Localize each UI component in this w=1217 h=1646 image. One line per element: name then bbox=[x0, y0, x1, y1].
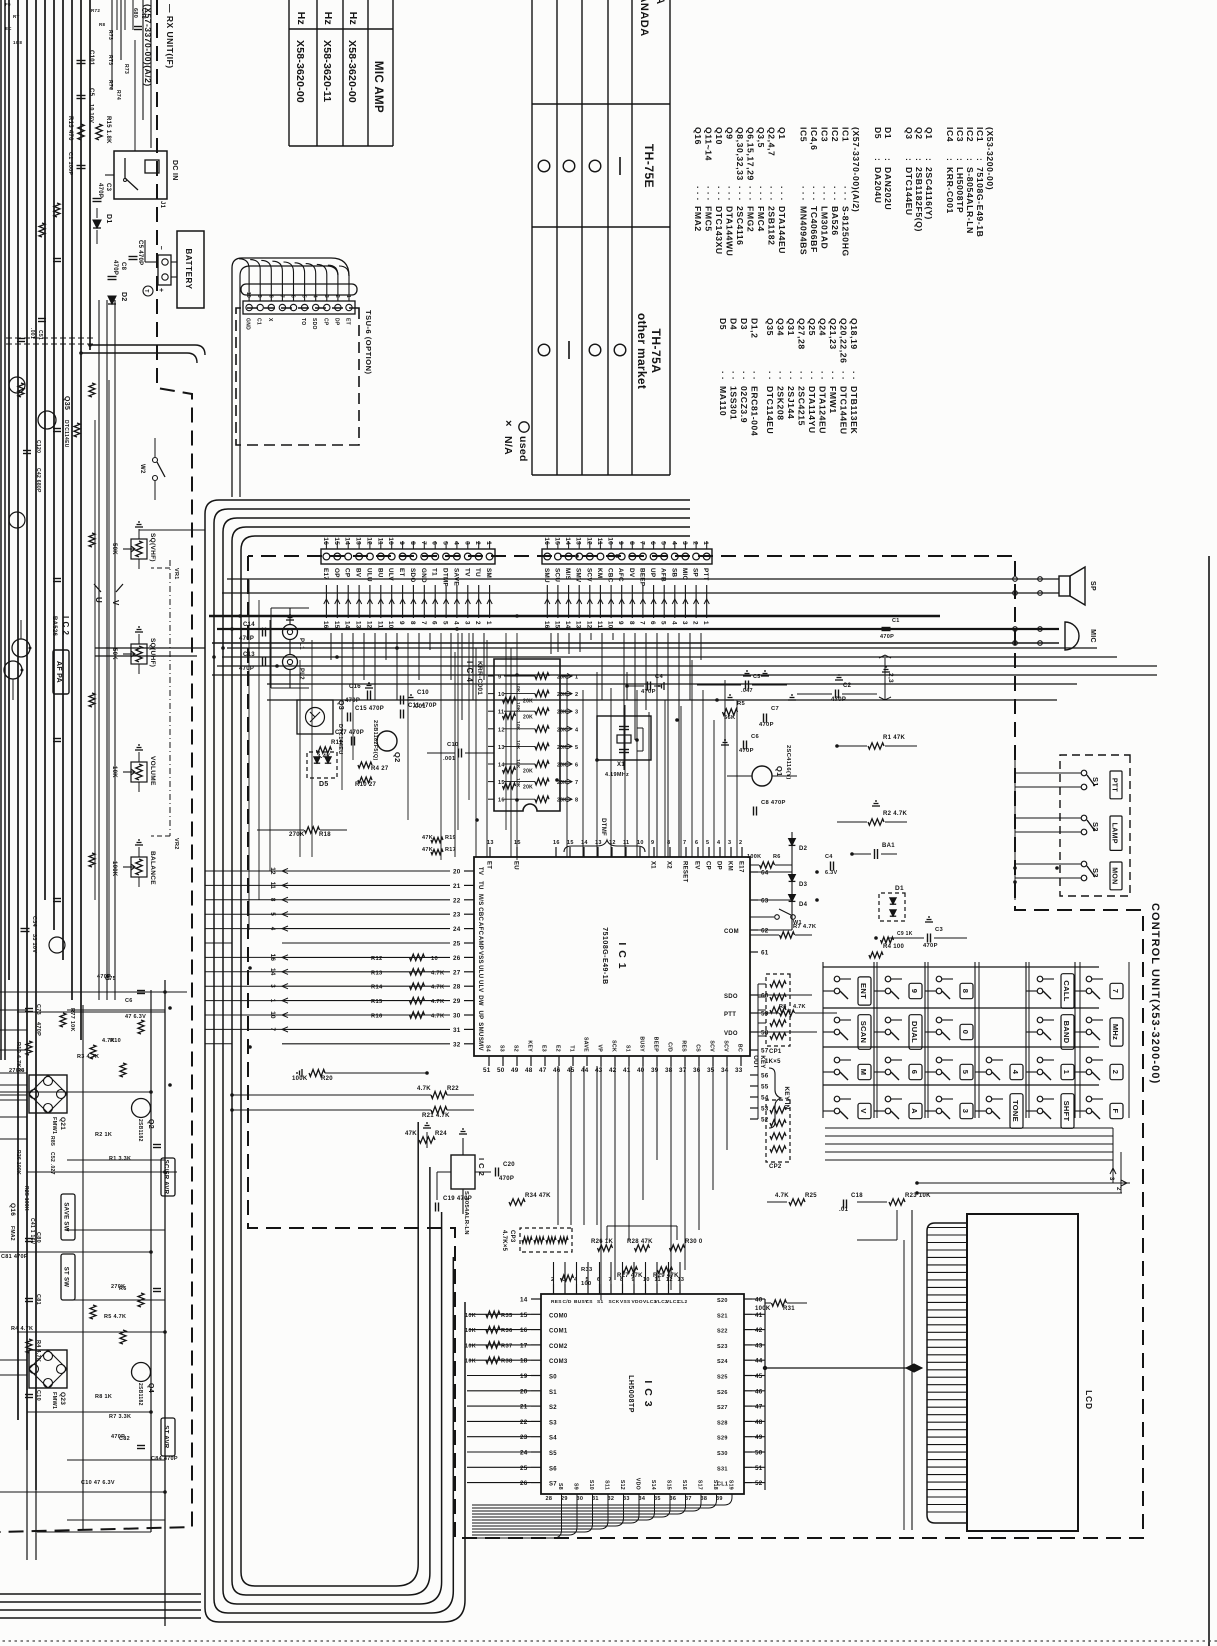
svg-text:KRR-C001: KRR-C001 bbox=[476, 661, 483, 695]
svg-text:Q35: Q35 bbox=[63, 396, 70, 410]
svg-text:15: 15 bbox=[553, 621, 560, 629]
svg-text:10K: 10K bbox=[465, 1328, 476, 1334]
svg-text:TU: TU bbox=[474, 568, 481, 577]
svg-text:6: 6 bbox=[649, 621, 656, 625]
svg-text:14: 14 bbox=[564, 537, 571, 545]
svg-text:E3: E3 bbox=[541, 1045, 547, 1052]
svg-text:VR2: VR2 bbox=[173, 838, 179, 850]
svg-text:· · ·: · · · bbox=[746, 186, 756, 201]
svg-text:5: 5 bbox=[575, 745, 578, 751]
svg-text:S1: S1 bbox=[597, 1299, 603, 1305]
svg-text:MIC AMP: MIC AMP bbox=[372, 61, 384, 113]
svg-text:AMP: AMP bbox=[477, 936, 483, 950]
svg-text:C4: C4 bbox=[825, 854, 833, 860]
svg-text:32: 32 bbox=[608, 1496, 615, 1502]
svg-text:20K: 20K bbox=[557, 710, 567, 716]
svg-text:R27 47K: R27 47K bbox=[617, 1273, 643, 1279]
svg-text:V: V bbox=[859, 1108, 868, 1113]
svg-text:10K: 10K bbox=[515, 778, 521, 788]
svg-text:40: 40 bbox=[755, 1297, 763, 1304]
svg-text:R8 1K: R8 1K bbox=[95, 1394, 112, 1400]
svg-text:16: 16 bbox=[543, 621, 550, 629]
svg-text:R13: R13 bbox=[371, 970, 383, 976]
svg-text:ENT: ENT bbox=[859, 983, 868, 999]
svg-text:2SB1182: 2SB1182 bbox=[137, 1383, 143, 1406]
svg-text:2SJ144: 2SJ144 bbox=[786, 386, 796, 419]
svg-text:100: 100 bbox=[581, 1281, 592, 1287]
svg-text:4.7K×5: 4.7K×5 bbox=[501, 1230, 507, 1252]
svg-text:DAN202U: DAN202U bbox=[883, 167, 893, 210]
svg-text:20K: 20K bbox=[557, 692, 567, 698]
svg-text:ERC81-004: ERC81-004 bbox=[750, 386, 760, 436]
svg-text:4.7K: 4.7K bbox=[793, 1004, 806, 1010]
svg-text:S25: S25 bbox=[717, 1375, 728, 1381]
svg-text:PL2: PL2 bbox=[298, 668, 304, 680]
svg-text:47: 47 bbox=[539, 1067, 547, 1074]
svg-text:6: 6 bbox=[695, 840, 698, 846]
svg-text:33 10V: 33 10V bbox=[31, 934, 37, 953]
svg-text:(X53-3200-00): (X53-3200-00) bbox=[985, 127, 995, 190]
svg-text:DP: DP bbox=[716, 861, 722, 870]
svg-text:17: 17 bbox=[520, 1342, 528, 1349]
svg-text:SB: SB bbox=[670, 568, 677, 577]
svg-text:ULV: ULV bbox=[477, 980, 483, 992]
svg-text:IC5: IC5 bbox=[799, 127, 809, 142]
svg-text:A: A bbox=[910, 1108, 919, 1114]
svg-text:33: 33 bbox=[735, 1067, 743, 1074]
svg-text:43: 43 bbox=[755, 1342, 763, 1349]
svg-text:E17: E17 bbox=[738, 861, 744, 873]
svg-text:R12: R12 bbox=[371, 956, 383, 962]
svg-text:Q24: Q24 bbox=[818, 318, 828, 336]
svg-text:BU: BU bbox=[376, 568, 383, 578]
svg-text:470P: 470P bbox=[641, 689, 656, 695]
svg-text:VSS: VSS bbox=[620, 1299, 631, 1305]
svg-text:42: 42 bbox=[609, 1067, 617, 1074]
svg-text:Hz: Hz bbox=[295, 12, 307, 25]
svg-text:CS: CS bbox=[695, 1044, 701, 1052]
svg-text:C3: C3 bbox=[105, 183, 111, 192]
svg-text:R16: R16 bbox=[371, 1014, 383, 1020]
svg-text:FMA2: FMA2 bbox=[9, 1226, 15, 1241]
svg-text:OUT: OUT bbox=[752, 1055, 758, 1069]
svg-text:TV: TV bbox=[463, 568, 470, 577]
svg-text:58: 58 bbox=[761, 1030, 769, 1037]
svg-text:52: 52 bbox=[761, 1117, 769, 1124]
svg-text:· ·: · · bbox=[786, 371, 796, 380]
svg-text:48: 48 bbox=[755, 1419, 763, 1426]
svg-text:Q18,19: Q18,19 bbox=[849, 318, 859, 350]
svg-text:7: 7 bbox=[420, 621, 427, 625]
svg-text:SCK: SCK bbox=[609, 1299, 620, 1305]
svg-text:7: 7 bbox=[683, 840, 686, 846]
svg-text:CANADA: CANADA bbox=[638, 0, 650, 37]
svg-text:20: 20 bbox=[520, 1388, 528, 1395]
svg-text:D2: D2 bbox=[120, 292, 127, 302]
svg-text:FMA2: FMA2 bbox=[693, 206, 703, 232]
svg-text:ET: ET bbox=[398, 568, 405, 577]
svg-text:FMC5: FMC5 bbox=[704, 206, 714, 232]
svg-text:C120: C120 bbox=[35, 440, 41, 453]
svg-text:22: 22 bbox=[453, 897, 461, 904]
svg-text:E2: E2 bbox=[555, 1045, 561, 1052]
svg-text:R31: R31 bbox=[783, 1306, 795, 1312]
svg-text:R38: R38 bbox=[501, 1359, 513, 1365]
svg-text:7: 7 bbox=[1111, 989, 1120, 993]
svg-text:10K: 10K bbox=[465, 1359, 476, 1365]
svg-text:21: 21 bbox=[520, 1404, 528, 1411]
svg-text:2SB1182: 2SB1182 bbox=[137, 1119, 143, 1142]
svg-text:BA1: BA1 bbox=[882, 843, 895, 849]
svg-text:31: 31 bbox=[453, 1027, 461, 1034]
svg-text:S3: S3 bbox=[549, 1420, 557, 1426]
svg-text:270K: 270K bbox=[111, 1284, 125, 1290]
svg-text:22: 22 bbox=[520, 1419, 528, 1426]
svg-text:R24: R24 bbox=[435, 1131, 447, 1137]
svg-text:M/S: M/S bbox=[564, 568, 571, 580]
svg-text:4: 4 bbox=[1011, 1070, 1020, 1075]
svg-text:8: 8 bbox=[575, 798, 578, 804]
svg-text:50: 50 bbox=[497, 1067, 505, 1074]
svg-text:BA526: BA526 bbox=[830, 206, 840, 236]
svg-text:R36: R36 bbox=[501, 1328, 513, 1334]
svg-text:10: 10 bbox=[643, 1277, 650, 1283]
svg-text:1: 1 bbox=[1062, 1070, 1071, 1074]
svg-text:2SB1182F5(Q): 2SB1182F5(Q) bbox=[372, 720, 378, 761]
svg-text:· · ·: · · · bbox=[809, 186, 819, 201]
svg-text:.001: .001 bbox=[29, 328, 35, 339]
svg-text:470P: 470P bbox=[112, 260, 118, 275]
svg-text:Q21: Q21 bbox=[59, 1117, 66, 1130]
svg-text:BEEP: BEEP bbox=[638, 568, 645, 586]
svg-text:Q23: Q23 bbox=[59, 1392, 66, 1405]
svg-text:SDO: SDO bbox=[724, 994, 738, 1000]
svg-text:39: 39 bbox=[651, 1067, 659, 1074]
svg-text:63: 63 bbox=[761, 898, 769, 905]
svg-text:BAND: BAND bbox=[1062, 1021, 1071, 1044]
svg-text:50K: 50K bbox=[111, 543, 117, 555]
svg-text:I C 1: I C 1 bbox=[616, 942, 628, 969]
svg-text:X2: X2 bbox=[666, 861, 672, 869]
svg-text:IC2: IC2 bbox=[965, 127, 975, 142]
svg-text:470P: 470P bbox=[739, 748, 754, 754]
svg-text:TU: TU bbox=[477, 881, 483, 890]
svg-text:10K: 10K bbox=[515, 683, 521, 693]
svg-text:52: 52 bbox=[755, 1480, 763, 1487]
svg-text:46: 46 bbox=[755, 1388, 763, 1395]
svg-text:· · ·: · · · bbox=[735, 186, 745, 201]
svg-text:470P: 470P bbox=[35, 1022, 41, 1036]
svg-text:Q1: Q1 bbox=[777, 127, 787, 140]
svg-text:2: 2 bbox=[739, 840, 742, 846]
svg-text:BA526: BA526 bbox=[51, 616, 57, 637]
svg-text:· · ·: · · · bbox=[820, 186, 830, 201]
svg-text:7: 7 bbox=[638, 541, 645, 545]
svg-text:FMW1: FMW1 bbox=[51, 1392, 57, 1409]
svg-text:Q3: Q3 bbox=[904, 127, 914, 140]
svg-text:LH5008TP: LH5008TP bbox=[955, 167, 965, 213]
svg-text:TV: TV bbox=[477, 867, 483, 875]
svg-text:CP: CP bbox=[344, 568, 351, 577]
svg-text:Q35: Q35 bbox=[765, 318, 775, 336]
svg-text:R25 100K: R25 100K bbox=[23, 1186, 29, 1211]
svg-text:470P: 470P bbox=[111, 1434, 125, 1440]
svg-text:100K: 100K bbox=[755, 1306, 771, 1312]
svg-text:· · ·: · · · bbox=[714, 186, 724, 201]
svg-text:DTA124EU: DTA124EU bbox=[818, 386, 828, 434]
svg-text:D5: D5 bbox=[873, 127, 883, 139]
svg-text:R1 3.3K: R1 3.3K bbox=[109, 1156, 131, 1162]
svg-text:2: 2 bbox=[692, 621, 699, 625]
svg-text:· · ·: · · · bbox=[767, 186, 777, 201]
svg-text:20K: 20K bbox=[557, 798, 567, 804]
svg-text:D2: D2 bbox=[799, 846, 808, 852]
svg-text:S-8054ALR-LN: S-8054ALR-LN bbox=[965, 167, 975, 234]
svg-text:COM3: COM3 bbox=[549, 1359, 568, 1365]
svg-text:C17 470P: C17 470P bbox=[335, 730, 364, 736]
svg-text:8: 8 bbox=[409, 541, 416, 545]
svg-text:COM: COM bbox=[724, 929, 739, 935]
svg-text:20: 20 bbox=[453, 869, 461, 876]
svg-text:42: 42 bbox=[755, 1327, 763, 1334]
svg-text:Q2,4,7: Q2,4,7 bbox=[767, 127, 777, 156]
svg-text:20K: 20K bbox=[557, 727, 567, 733]
svg-text:12: 12 bbox=[498, 727, 505, 733]
svg-text:Hz: Hz bbox=[347, 12, 359, 25]
svg-text:MIC: MIC bbox=[1089, 629, 1096, 643]
svg-text:C15 470P: C15 470P bbox=[355, 706, 384, 712]
svg-text:33: 33 bbox=[623, 1496, 630, 1502]
svg-text:KM: KM bbox=[596, 568, 603, 578]
svg-text:.001: .001 bbox=[443, 756, 456, 762]
svg-text:MON: MON bbox=[1111, 867, 1118, 884]
svg-text:13: 13 bbox=[575, 621, 582, 629]
svg-text:CALL: CALL bbox=[1062, 980, 1071, 1001]
svg-text:R14: R14 bbox=[371, 985, 383, 991]
svg-text:C10 47 6.3V: C10 47 6.3V bbox=[81, 1480, 115, 1486]
svg-text:RESET: RESET bbox=[682, 861, 688, 883]
svg-text:Q2: Q2 bbox=[914, 127, 924, 140]
svg-text:C1: C1 bbox=[256, 318, 262, 325]
svg-text:23: 23 bbox=[520, 1434, 528, 1441]
svg-text:R25: R25 bbox=[805, 1193, 817, 1199]
svg-text:X58-3620-11: X58-3620-11 bbox=[321, 40, 333, 102]
svg-text:IC3: IC3 bbox=[820, 127, 830, 142]
svg-text:2: 2 bbox=[1115, 1187, 1121, 1191]
svg-text:BATTERY: BATTERY bbox=[184, 248, 193, 289]
svg-text:D5: D5 bbox=[319, 781, 329, 788]
svg-text:44: 44 bbox=[755, 1358, 763, 1365]
svg-text:470P: 470P bbox=[880, 634, 894, 640]
svg-text:GND: GND bbox=[420, 568, 427, 583]
svg-text:· ·: · · bbox=[765, 371, 775, 380]
svg-text:1SS301: 1SS301 bbox=[729, 386, 739, 420]
svg-text:ET: ET bbox=[486, 861, 492, 869]
svg-text:I C 2: I C 2 bbox=[61, 616, 70, 635]
svg-text:DTC114EU: DTC114EU bbox=[63, 420, 69, 448]
svg-text:2SC4116(Y): 2SC4116(Y) bbox=[924, 167, 934, 220]
svg-text:SAVE: SAVE bbox=[583, 1037, 589, 1052]
svg-text:— RX UNIT(IF): — RX UNIT(IF) bbox=[165, 4, 175, 69]
svg-text:4.7K: 4.7K bbox=[431, 985, 445, 991]
svg-text:· ·: · · bbox=[828, 371, 838, 380]
svg-text:C18: C18 bbox=[851, 1193, 863, 1199]
svg-text:IC1: IC1 bbox=[975, 127, 985, 142]
svg-text:DTB113EK: DTB113EK bbox=[849, 386, 859, 434]
svg-text:· ·: · · bbox=[849, 371, 859, 380]
svg-text:DA204U: DA204U bbox=[873, 167, 883, 204]
svg-text:D1: D1 bbox=[895, 885, 904, 892]
svg-text:470P: 470P bbox=[831, 697, 846, 703]
svg-text:20K: 20K bbox=[557, 675, 567, 681]
svg-text:R37: R37 bbox=[501, 1343, 513, 1349]
svg-text:· ·: · · bbox=[807, 371, 817, 380]
svg-text:4.7K: 4.7K bbox=[102, 1038, 115, 1044]
svg-text:S4: S4 bbox=[485, 1045, 491, 1052]
svg-text:2: 2 bbox=[474, 541, 481, 545]
svg-text:62: 62 bbox=[761, 928, 769, 935]
svg-text:49: 49 bbox=[755, 1434, 763, 1441]
svg-text:T1: T1 bbox=[569, 1045, 575, 1052]
svg-text:R8: R8 bbox=[779, 1004, 787, 1010]
svg-text:14: 14 bbox=[564, 621, 571, 629]
svg-text:SAVE SW: SAVE SW bbox=[63, 1202, 69, 1231]
svg-text:C1: C1 bbox=[892, 618, 900, 624]
svg-text:· · ·: · · · bbox=[704, 186, 714, 201]
svg-text:CBC: CBC bbox=[607, 568, 614, 583]
svg-text:S27: S27 bbox=[717, 1405, 728, 1411]
svg-text:SMU: SMU bbox=[543, 568, 550, 583]
svg-text:D4: D4 bbox=[799, 902, 808, 908]
svg-text:C101: C101 bbox=[88, 50, 94, 66]
svg-text:38: 38 bbox=[665, 1067, 673, 1074]
svg-text:C/D: C/D bbox=[667, 1042, 673, 1052]
svg-text:2SB1182F5(Q): 2SB1182F5(Q) bbox=[914, 167, 924, 232]
svg-text:3: 3 bbox=[681, 541, 688, 545]
svg-text:D1: D1 bbox=[105, 214, 112, 224]
svg-text:75108G-E49-1B: 75108G-E49-1B bbox=[601, 927, 608, 984]
svg-text:FMC4: FMC4 bbox=[756, 206, 766, 232]
svg-text:10K: 10K bbox=[515, 702, 521, 712]
svg-text:D1: D1 bbox=[883, 127, 893, 139]
svg-text:470P: 470P bbox=[759, 722, 774, 728]
svg-text:R4 4.7K: R4 4.7K bbox=[11, 1326, 33, 1332]
svg-text:SM: SM bbox=[485, 568, 492, 578]
svg-text:9: 9 bbox=[651, 840, 654, 846]
svg-text:SCV: SCV bbox=[723, 1040, 729, 1052]
svg-text:11: 11 bbox=[596, 621, 603, 628]
svg-text::: : bbox=[883, 158, 893, 161]
svg-text:C16: C16 bbox=[349, 684, 361, 690]
svg-text::: : bbox=[873, 158, 883, 161]
svg-text:61: 61 bbox=[761, 950, 769, 957]
svg-text:5: 5 bbox=[660, 621, 667, 625]
svg-text:270K: 270K bbox=[289, 832, 305, 838]
svg-text:10: 10 bbox=[637, 840, 644, 846]
svg-text:14: 14 bbox=[520, 1297, 528, 1304]
svg-text:R1 47K: R1 47K bbox=[883, 735, 906, 741]
svg-text:S-81250HG: S-81250HG bbox=[841, 206, 851, 257]
svg-text:23: 23 bbox=[453, 912, 461, 919]
svg-text:2SC4215: 2SC4215 bbox=[797, 386, 807, 426]
svg-text:Q10: Q10 bbox=[714, 127, 724, 145]
svg-text:13: 13 bbox=[498, 745, 505, 751]
svg-text:4: 4 bbox=[670, 621, 677, 625]
svg-text:45: 45 bbox=[755, 1373, 763, 1380]
svg-text:Q9: Q9 bbox=[725, 127, 735, 140]
svg-text:IC2: IC2 bbox=[830, 127, 840, 142]
svg-text:R22: R22 bbox=[447, 1086, 459, 1092]
svg-text:Q16: Q16 bbox=[693, 127, 703, 145]
svg-text:S11: S11 bbox=[604, 1480, 610, 1490]
svg-text:5: 5 bbox=[706, 840, 709, 846]
svg-text:ST SW: ST SW bbox=[63, 1267, 69, 1288]
svg-text:R74: R74 bbox=[115, 90, 121, 100]
svg-text:50K: 50K bbox=[111, 648, 117, 660]
svg-text:Q3: Q3 bbox=[337, 700, 344, 710]
svg-text:VDO: VDO bbox=[632, 1299, 643, 1305]
svg-text:S22: S22 bbox=[717, 1329, 728, 1335]
svg-text:C34: C34 bbox=[31, 916, 37, 928]
svg-text:S5: S5 bbox=[549, 1451, 557, 1457]
svg-text:VLC3: VLC3 bbox=[643, 1299, 656, 1305]
svg-text:SDO: SDO bbox=[311, 318, 317, 330]
svg-text:T: T bbox=[143, 289, 149, 292]
svg-text:SMV: SMV bbox=[477, 1037, 483, 1051]
svg-text:· · ·: · · · bbox=[756, 186, 766, 201]
svg-text:SCAN: SCAN bbox=[859, 1021, 868, 1043]
svg-text:Q21,23: Q21,23 bbox=[828, 318, 838, 350]
svg-text:R4 27: R4 27 bbox=[371, 766, 389, 772]
svg-text:6: 6 bbox=[431, 621, 438, 625]
svg-text:C9 1K: C9 1K bbox=[897, 931, 913, 937]
svg-text:R7 4.7K: R7 4.7K bbox=[793, 924, 817, 930]
svg-text:SQ(VHF): SQ(VHF) bbox=[149, 533, 156, 562]
svg-text:38: 38 bbox=[701, 1496, 708, 1502]
svg-text:S23: S23 bbox=[717, 1344, 728, 1350]
svg-text:5: 5 bbox=[442, 621, 449, 625]
svg-text:10K: 10K bbox=[515, 740, 521, 750]
svg-text:R85: R85 bbox=[49, 1136, 55, 1146]
svg-text:4: 4 bbox=[452, 541, 459, 545]
svg-text:OP: OP bbox=[333, 568, 340, 578]
svg-text:0: 0 bbox=[961, 1030, 970, 1034]
svg-text:C/D: C/D bbox=[563, 1299, 572, 1305]
svg-text:VSS: VSS bbox=[477, 951, 483, 964]
svg-text:30: 30 bbox=[577, 1496, 584, 1502]
svg-text:100K: 100K bbox=[747, 854, 761, 860]
svg-text:R2 1K: R2 1K bbox=[95, 1132, 112, 1138]
svg-text:D5: D5 bbox=[718, 318, 728, 330]
svg-text:VOLUME: VOLUME bbox=[149, 756, 156, 786]
svg-text:MHz: MHz bbox=[1111, 1024, 1120, 1040]
svg-text:DW: DW bbox=[477, 995, 483, 1006]
svg-text:30: 30 bbox=[453, 1013, 461, 1020]
svg-text:×: × bbox=[502, 420, 514, 427]
svg-text:BV: BV bbox=[355, 568, 362, 578]
svg-text:SDO: SDO bbox=[409, 568, 416, 583]
svg-text:R10 27: R10 27 bbox=[355, 782, 377, 788]
svg-text:S14: S14 bbox=[650, 1480, 656, 1490]
svg-text:ULU: ULU bbox=[365, 568, 372, 582]
svg-text:BC: BC bbox=[737, 1044, 743, 1052]
svg-text:Q8,30,32,33: Q8,30,32,33 bbox=[735, 127, 745, 181]
svg-text:.001: .001 bbox=[413, 704, 426, 710]
svg-text:R15: R15 bbox=[371, 999, 383, 1005]
svg-text:S30: S30 bbox=[717, 1451, 728, 1457]
svg-text:18: 18 bbox=[520, 1358, 528, 1365]
svg-text:DTA114YU: DTA114YU bbox=[807, 386, 817, 434]
